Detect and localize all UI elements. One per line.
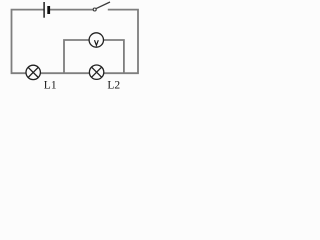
battery B1	[44, 2, 49, 18]
wire between L1 and L2	[40, 72, 89, 74]
svg-text:L2: L2	[107, 80, 120, 92]
wire battery to switch	[50, 9, 93, 11]
switch S1	[93, 2, 110, 11]
voltmeter V	[89, 33, 103, 47]
lamp L2	[89, 65, 103, 79]
wire voltmeter branch right	[103, 40, 124, 73]
wire voltmeter branch left	[64, 40, 89, 73]
wire top-left corner and left side	[12, 10, 45, 74]
wire switch to right side and bottom-right	[104, 10, 138, 74]
lamp L1	[26, 65, 40, 79]
svg-text:L1: L1	[44, 80, 57, 92]
